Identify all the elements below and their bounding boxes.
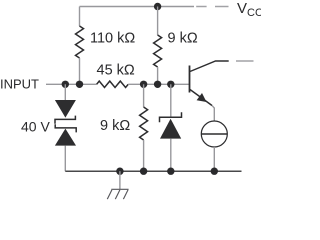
- svg-text:45 kΩ: 45 kΩ: [97, 63, 135, 79]
- node input junction C: [140, 81, 147, 88]
- resistor R1 110 kOhm: [76, 7, 84, 85]
- current source U1: [201, 121, 227, 147]
- transistor Q1 emitter arrow: [197, 93, 207, 102]
- svg-text:INPUT: INPUT: [0, 77, 39, 92]
- wire current source to rail: [213, 147, 215, 171]
- node bottom junction H: [167, 168, 174, 175]
- node input junction E: [167, 81, 174, 88]
- wire collector continuation dash: [236, 60, 254, 62]
- wire VCC continuation dashes: [196, 6, 228, 8]
- ground symbol: [107, 189, 128, 199]
- wire to ground: [119, 171, 121, 189]
- node junction top rail: [154, 3, 161, 10]
- zener diode D2: [160, 84, 182, 171]
- transistor Q1 collector: [190, 61, 229, 72]
- svg-text:40 V: 40 V: [21, 118, 50, 134]
- svg-text:110 kΩ: 110 kΩ: [90, 31, 135, 47]
- node input junction B: [76, 81, 83, 88]
- wire top VCC rail: [80, 6, 195, 8]
- wire input line left: [46, 83, 97, 85]
- resistor R4 9 kOhm bottom: [140, 84, 148, 171]
- wire input line right: [128, 83, 189, 85]
- wire bottom rail: [65, 170, 241, 172]
- zener pair D1 40 V: [55, 84, 76, 171]
- svg-text:9 kΩ: 9 kΩ: [168, 31, 198, 47]
- resistor R2 9 kOhm top: [154, 7, 162, 85]
- wire emitter to current source: [212, 106, 214, 122]
- transistor Q1 base bar: [189, 66, 191, 93]
- node input junction D: [154, 81, 161, 88]
- node bottom junction F: [116, 168, 123, 175]
- svg-text:9 kΩ: 9 kΩ: [100, 118, 130, 134]
- node bottom junction G: [140, 168, 147, 175]
- node input junction A: [62, 81, 69, 88]
- resistor R3 45 kOhm: [97, 81, 129, 87]
- node bottom junction I: [211, 168, 218, 175]
- transistor Q1 emitter: [190, 90, 212, 106]
